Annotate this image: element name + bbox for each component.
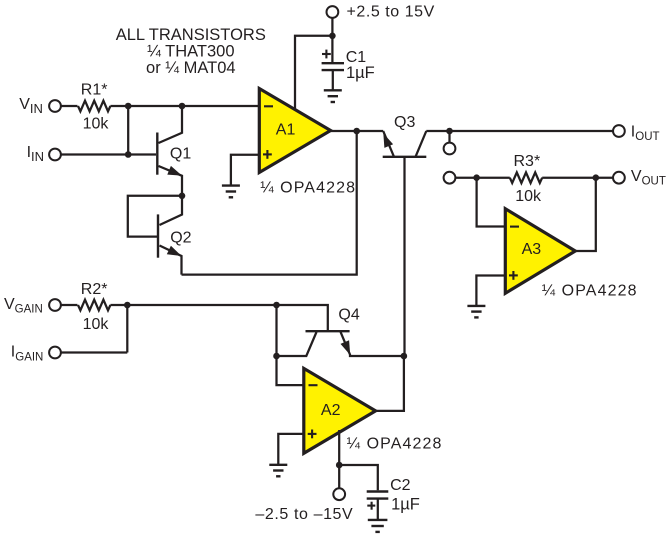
wire A1 output to Q3 emitter (331, 130, 384, 132)
op-amp A1 (259, 89, 330, 173)
node dot IIN junction (125, 151, 132, 158)
node dot Q1 collector on VIN row (179, 103, 186, 110)
svg-text:Q2: Q2 (170, 229, 191, 246)
svg-text:ALL TRANSISTORS: ALL TRANSISTORS (116, 26, 266, 44)
wire C2 to ground (377, 499, 379, 520)
A2 plus input symbol (308, 430, 317, 439)
wire jumper to R3 (456, 177, 510, 179)
wire rail node to negative terminal (338, 465, 340, 489)
svg-text:10k: 10k (515, 188, 542, 205)
svg-text:or ¼ MAT04: or ¼ MAT04 (146, 59, 236, 77)
op-amp A2 (304, 368, 376, 453)
wire stub to jumper circle (448, 131, 450, 143)
A2 minus input symbol (309, 384, 318, 386)
transistor Q1 emitter (159, 166, 183, 196)
wire A2 supply pin down (338, 430, 340, 465)
wire R1 to A1 minus input (110, 105, 262, 107)
node dot A1 output (353, 128, 360, 135)
terminal positive supply (327, 6, 339, 18)
wire rail node to C1 (331, 36, 333, 62)
transistor Q4 emitter diagonal (341, 332, 404, 356)
arrowhead Q3 emitter (383, 133, 393, 148)
wire vertical joining VIN and IIN rows (127, 106, 129, 155)
node dot R3 right (593, 174, 600, 181)
wire positive rail to A1 supply pin (295, 36, 332, 112)
capacitor C2 plus sign (367, 502, 375, 510)
wire A3 output to R3 right node (575, 178, 596, 251)
wire supply terminal to rail node (331, 17, 333, 36)
node dot positive rail (329, 33, 336, 40)
op-amp A3 (505, 209, 575, 294)
jumper terminal lower (R3 row) (444, 172, 456, 184)
wire IIN row to Q1 base (61, 153, 156, 155)
terminal negative supply (333, 488, 345, 500)
wire rail node to C2 (339, 465, 378, 490)
transistor Q2 collector (160, 196, 183, 225)
transistor Q1 base bar (156, 133, 158, 175)
transistor Q2 base bar (157, 214, 159, 257)
capacitor C2 plates (367, 490, 389, 492)
A1 plus input symbol (263, 150, 272, 159)
svg-text:–2.5 to –15V: –2.5 to –15V (255, 506, 353, 523)
node dot IOUT row (446, 128, 453, 135)
wire A2 output up to Q4 node (376, 356, 404, 411)
wire VIN row to A1 inverting input (61, 105, 77, 107)
terminal IOUT (613, 125, 625, 137)
wire Q3 collector to IOUT (426, 130, 613, 132)
resistor R3 zigzag (510, 172, 542, 183)
wire vertical joining VGAIN and IGAIN rows (126, 305, 128, 353)
node dot VIN/R1 junction (125, 103, 132, 110)
wire left vertical VGAIN node to A2 minus (277, 305, 304, 385)
transistor Q4 collector diagonal (277, 332, 317, 356)
svg-text:R2*: R2* (81, 281, 108, 298)
arrowhead Q4 emitter (341, 340, 351, 355)
wire A3 noninverting input to ground stub (476, 276, 508, 306)
wire R3 left node to A3 inverting input (477, 178, 508, 227)
wire IGAIN row (61, 351, 127, 353)
svg-text:IOUT: IOUT (631, 124, 660, 144)
A1 minus input symbol (264, 105, 273, 107)
wire Q2 emitter to A1 output feedback (182, 131, 357, 275)
node dot Q4 left (273, 353, 280, 360)
wire Q2 base tie loop (128, 196, 182, 237)
jumper terminal upper (444, 143, 456, 155)
svg-text:¼ OPA4228: ¼ OPA4228 (260, 179, 356, 196)
svg-text:1µF: 1µF (391, 496, 420, 514)
node A Q1 emitter / Q2 collector junction (179, 193, 186, 200)
wire VGAIN to R2 (61, 304, 77, 306)
wire C1 to ground (332, 70, 334, 90)
svg-text:10k: 10k (83, 116, 110, 133)
ground at A2 plus input (269, 465, 287, 477)
transistor Q2 emitter (160, 246, 182, 275)
svg-text:C2: C2 (390, 477, 411, 494)
ground at A3 plus input (467, 306, 485, 318)
svg-text:¼ OPA4228: ¼ OPA4228 (542, 283, 638, 300)
svg-text:VOUT: VOUT (631, 168, 666, 188)
terminal VIN (49, 100, 61, 112)
note ALL TRANSISTORS 1/4 THAT300 or 1/4 MAT04 (116, 26, 266, 77)
A3 minus input symbol (510, 226, 519, 228)
terminal VOUT (613, 172, 625, 184)
terminal IIN (49, 149, 61, 161)
wire A1 noninverting input to ground stub (231, 155, 262, 186)
resistor R2 zigzag (78, 300, 110, 311)
node dot negative rail (336, 462, 343, 469)
svg-text:Q4: Q4 (338, 307, 359, 324)
svg-text:¼ THAT300: ¼ THAT300 (147, 43, 234, 61)
transistor Q1 collector (159, 106, 183, 143)
ground below C2 (368, 520, 388, 532)
svg-text:Q1: Q1 (170, 146, 191, 163)
terminal IGAIN (49, 347, 61, 359)
svg-text:¼ OPA4228: ¼ OPA4228 (347, 435, 443, 452)
terminal VGAIN (49, 299, 61, 311)
node dot R2 junction (124, 302, 131, 309)
svg-text:Q3: Q3 (394, 114, 415, 131)
ground below C1 (324, 90, 342, 102)
wire Q3 base down to Q4 node (403, 157, 405, 356)
transistor Q3 collector diagonal (416, 131, 427, 157)
node dot R3 left (473, 174, 480, 181)
svg-text:IIN: IIN (27, 144, 44, 164)
svg-text:A3: A3 (522, 241, 542, 258)
svg-text:A1: A1 (276, 122, 296, 139)
transistor Q3 emitter diagonal (383, 131, 394, 157)
svg-text:R3*: R3* (514, 153, 541, 170)
svg-text:+2.5 to 15V: +2.5 to 15V (347, 4, 435, 21)
resistor R1 zigzag (78, 101, 110, 112)
svg-text:VGAIN: VGAIN (4, 296, 43, 316)
svg-text:VIN: VIN (19, 96, 43, 116)
node dot Q4 right / A2 output (401, 353, 408, 360)
wire R3 to VOUT (542, 177, 613, 179)
capacitor C1 plates (322, 62, 344, 64)
wire A2 noninverting input to ground stub (278, 434, 304, 465)
svg-text:R1*: R1* (81, 82, 108, 99)
node dot VGAIN row at Q4 (273, 302, 280, 309)
svg-text:1µF: 1µF (346, 64, 375, 82)
arrowhead Q2 emitter (167, 246, 182, 256)
svg-text:10k: 10k (83, 316, 110, 333)
A3 plus input symbol (509, 271, 518, 280)
transistor Q3 base bar (383, 156, 427, 158)
svg-text:IGAIN: IGAIN (11, 344, 44, 364)
ground at A1 plus input (222, 186, 240, 198)
capacitor C1 plus sign (322, 50, 331, 59)
wire R2 to Q4 base (110, 305, 327, 331)
svg-text:A2: A2 (321, 402, 341, 419)
arrowhead Q1 emitter (167, 166, 182, 176)
transistor Q4 base bar (306, 330, 350, 332)
